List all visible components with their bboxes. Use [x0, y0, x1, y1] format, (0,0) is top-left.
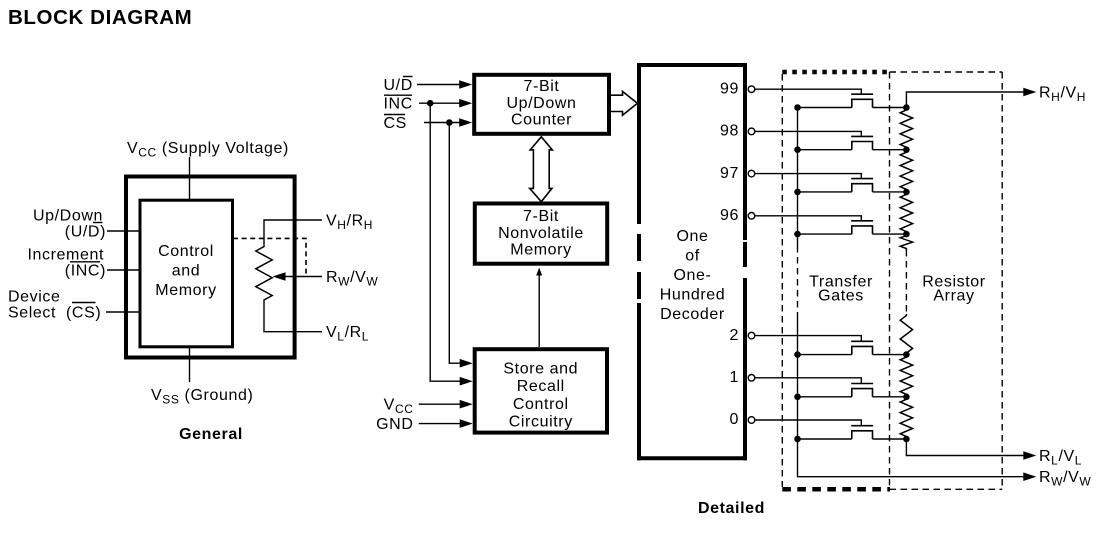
wire U/D input	[107, 230, 140, 232]
wiper bus wire (bottom group) to RW output	[798, 312, 1037, 481]
resistor R2 of array	[900, 150, 912, 192]
svg-text:GND: GND	[376, 416, 413, 433]
label CS input	[384, 115, 407, 132]
svg-text:Circuitry: Circuitry	[509, 414, 573, 431]
wiper bus wire (top group)	[797, 108, 799, 247]
store and recall control circuitry block	[475, 349, 607, 432]
label U/D input	[384, 77, 413, 94]
label Increment (INC)	[27, 247, 106, 280]
svg-text:Gates: Gates	[818, 288, 864, 305]
caption General	[179, 426, 243, 443]
potentiometer resistor element	[256, 246, 272, 301]
svg-text:Store and: Store and	[503, 361, 578, 378]
resistor array box (dashed)	[890, 72, 1003, 489]
resistor R3 of array	[900, 192, 912, 234]
wire gate feed from decoder output 0	[755, 420, 862, 426]
svg-text:(U/D): (U/D)	[65, 224, 106, 241]
transistor Q1 (transfer gate 99)	[851, 94, 873, 107]
junction dot CS	[446, 119, 453, 126]
transistor Q7 (transfer gate 0)	[851, 426, 873, 439]
svg-text:0: 0	[730, 411, 740, 428]
svg-text:Hundred: Hundred	[660, 287, 726, 304]
svg-text:INC: INC	[384, 96, 413, 113]
outer package box (General)	[126, 177, 295, 358]
svg-text:98: 98	[720, 123, 739, 140]
svg-text:One: One	[676, 228, 708, 245]
wire store/recall to memory	[536, 268, 542, 348]
svg-text:96: 96	[720, 207, 739, 224]
svg-text:CS: CS	[384, 115, 407, 132]
decoder output 97 label	[720, 165, 739, 182]
svg-text:One-: One-	[674, 267, 712, 284]
resistor R1 of array	[900, 108, 912, 150]
wire source of Q4 to wiper bus	[794, 231, 852, 238]
wire drain of Q4 to resistor array tap	[873, 231, 910, 238]
wire RL output from bottom of resistor array	[906, 439, 1036, 460]
resistor chain dashed continuation	[905, 250, 907, 314]
svg-text:and: and	[172, 263, 201, 280]
wire INC input	[107, 269, 140, 271]
svg-text:Memory: Memory	[155, 282, 216, 299]
overbar on CS input	[384, 114, 405, 116]
wire source of Q3 to wiper bus	[794, 189, 852, 196]
label Device Select (CS)	[8, 289, 101, 322]
overbar on CS	[72, 302, 96, 304]
junction dot INC	[427, 100, 434, 107]
transistor Q3 (transfer gate 97)	[851, 179, 873, 192]
7-bit up/down counter block	[474, 75, 609, 134]
control and memory block	[140, 200, 233, 347]
svg-text:Array: Array	[933, 288, 974, 305]
decoder output 97 node circle	[748, 170, 755, 177]
decoder output 96 node circle	[748, 213, 755, 220]
wire source of Q1 to wiper bus	[794, 104, 852, 111]
wire drain of Q6 to resistor array tap	[873, 394, 910, 401]
label VH/RH (general)	[326, 213, 373, 233]
decoder output 2 label	[730, 327, 740, 344]
label INC input	[384, 96, 413, 113]
svg-text:VCC​: VCC​	[384, 397, 414, 417]
decoder output 2 node circle	[748, 332, 755, 339]
resistor R4 partial into array break	[900, 234, 912, 250]
svg-text:of: of	[685, 248, 700, 265]
svg-text:Increment: Increment	[27, 247, 104, 264]
label VL/RL (general)	[326, 324, 369, 344]
transistor Q5 (transfer gate 2)	[851, 341, 873, 354]
label RW/VW (general)	[326, 269, 378, 289]
svg-text:U/D: U/D	[384, 77, 413, 94]
svg-text:2: 2	[730, 327, 740, 344]
wire INC down to store/recall	[430, 103, 473, 385]
label GND (detailed)	[376, 416, 413, 433]
wire CS input	[106, 311, 140, 313]
wire source of Q5 to wiper bus	[794, 351, 852, 358]
wire CS down to store/recall	[449, 123, 472, 368]
label RW/VW	[1039, 469, 1091, 489]
resistor R6 of array	[900, 355, 912, 397]
title BLOCK DIAGRAM	[8, 6, 192, 29]
svg-text:Decoder: Decoder	[660, 306, 725, 323]
overbar on D of (U/D)	[93, 222, 103, 224]
svg-text:97: 97	[720, 165, 739, 182]
label Resistor Array	[922, 274, 986, 305]
wire VCC to control block	[189, 157, 191, 200]
wire gate feed from decoder output 96	[755, 216, 862, 221]
wire VCC to store/recall	[419, 400, 473, 409]
svg-text:Control: Control	[513, 396, 569, 413]
svg-text:Up/Down: Up/Down	[33, 208, 103, 225]
decoder output 1 node circle	[748, 375, 755, 382]
wire gate feed from decoder output 98	[755, 131, 862, 136]
wire source of Q6 to wiper bus	[794, 394, 852, 401]
svg-text:1: 1	[730, 369, 740, 386]
wire gate feed from decoder output 97	[755, 174, 862, 179]
label VSS ground	[151, 387, 253, 407]
svg-text:BLOCK DIAGRAM: BLOCK DIAGRAM	[8, 6, 192, 29]
svg-text:Select: Select	[8, 305, 56, 322]
svg-text:7-Bit: 7-Bit	[523, 208, 559, 225]
7-bit nonvolatile memory block	[475, 204, 607, 264]
wire VH top of potentiometer	[264, 220, 322, 246]
transfer gates box (dotted)	[782, 72, 890, 489]
overbar on INC	[70, 261, 100, 263]
wire source of Q2 to wiper bus	[794, 146, 852, 153]
transistor Q6 (transfer gate 1)	[851, 384, 873, 397]
one of one-hundred decoder block	[637, 63, 747, 460]
decoder output 99 node circle	[748, 86, 755, 93]
svg-text:Device: Device	[8, 289, 61, 306]
decoder output 99 label	[720, 80, 739, 97]
svg-text:Counter: Counter	[511, 112, 572, 129]
wire drain of Q7 to resistor array tap	[873, 436, 910, 443]
wire VSS from control block	[189, 347, 191, 382]
svg-text:RW​/VW​: RW​/VW​	[326, 269, 378, 289]
wire U/D to counter	[417, 80, 472, 89]
label VCC supply voltage	[127, 140, 289, 160]
svg-text:General: General	[179, 426, 243, 443]
label Transfer Gates	[809, 274, 873, 305]
svg-text:Recall: Recall	[517, 378, 565, 395]
wire source of Q7 to wiper bus	[794, 436, 852, 443]
label VCC (detailed)	[384, 397, 414, 417]
svg-text:7-Bit: 7-Bit	[524, 78, 560, 95]
wire gate feed from decoder output 2	[755, 336, 862, 342]
wire gate feed from decoder output 99	[755, 89, 862, 94]
wire drain of Q1 to resistor array tap	[873, 104, 910, 111]
label Up/Down (U/D)	[33, 208, 106, 241]
resistor R7 of array	[900, 397, 912, 439]
svg-text:RW​/VW​: RW​/VW​	[1039, 469, 1091, 489]
open bus arrow counter to decoder	[611, 91, 637, 115]
decoder output 96 label	[720, 207, 739, 224]
wire RH output from top of resistor array	[906, 88, 1036, 108]
svg-text:RH​/VH​: RH​/VH​	[1039, 85, 1086, 105]
wire GND to store/recall	[419, 419, 473, 428]
svg-text:Memory: Memory	[510, 241, 571, 258]
svg-text:VL​/RL​: VL​/RL​	[326, 324, 369, 344]
svg-text:Control: Control	[158, 243, 214, 260]
transistor Q2 (transfer gate 98)	[851, 136, 873, 149]
svg-text:Up/Down: Up/Down	[506, 95, 576, 112]
wire drain of Q2 to resistor array tap	[873, 146, 910, 153]
dashed control-to-wiper connection	[233, 238, 306, 276]
overbar on D of U/D	[403, 76, 413, 78]
decoder output 98 node circle	[748, 128, 755, 135]
decoder output 0 label	[730, 411, 740, 428]
caption Detailed	[698, 500, 765, 517]
bidirectional bus arrow counter/memory	[530, 137, 553, 202]
transistor Q4 (transfer gate 96)	[851, 221, 873, 234]
label RH/VH	[1039, 85, 1086, 105]
svg-text:(CS): (CS)	[66, 305, 101, 322]
wire gate feed from decoder output 1	[755, 378, 862, 384]
label RL/VL	[1039, 448, 1082, 468]
overbar on INC input	[384, 94, 412, 96]
wire drain of Q5 to resistor array tap	[873, 351, 910, 358]
wire VL bottom of potentiometer	[264, 301, 322, 332]
wire drain of Q3 to resistor array tap	[873, 189, 910, 196]
resistor R5 partial out of array break	[900, 314, 912, 355]
decoder output 0 node circle	[748, 417, 755, 424]
wire INC to counter	[419, 99, 472, 108]
svg-text:VH​/RH​: VH​/RH​	[326, 213, 373, 233]
svg-text:Nonvolatile: Nonvolatile	[498, 225, 584, 242]
svg-text:VSS​ (Ground): VSS​ (Ground)	[151, 387, 253, 407]
wiper bus wire dashed continuation	[797, 246, 799, 312]
svg-text:99: 99	[720, 80, 739, 97]
decoder output 1 label	[730, 369, 740, 386]
svg-text:RL​/VL​: RL​/VL​	[1039, 448, 1082, 468]
decoder output 98 label	[720, 123, 739, 140]
svg-text:(INC): (INC)	[65, 263, 106, 280]
wire CS to counter	[424, 118, 472, 127]
svg-text:Detailed: Detailed	[698, 500, 765, 517]
svg-text:VCC​ (Supply Voltage): VCC​ (Supply Voltage)	[127, 140, 289, 160]
wiper arrow RW	[273, 272, 323, 281]
